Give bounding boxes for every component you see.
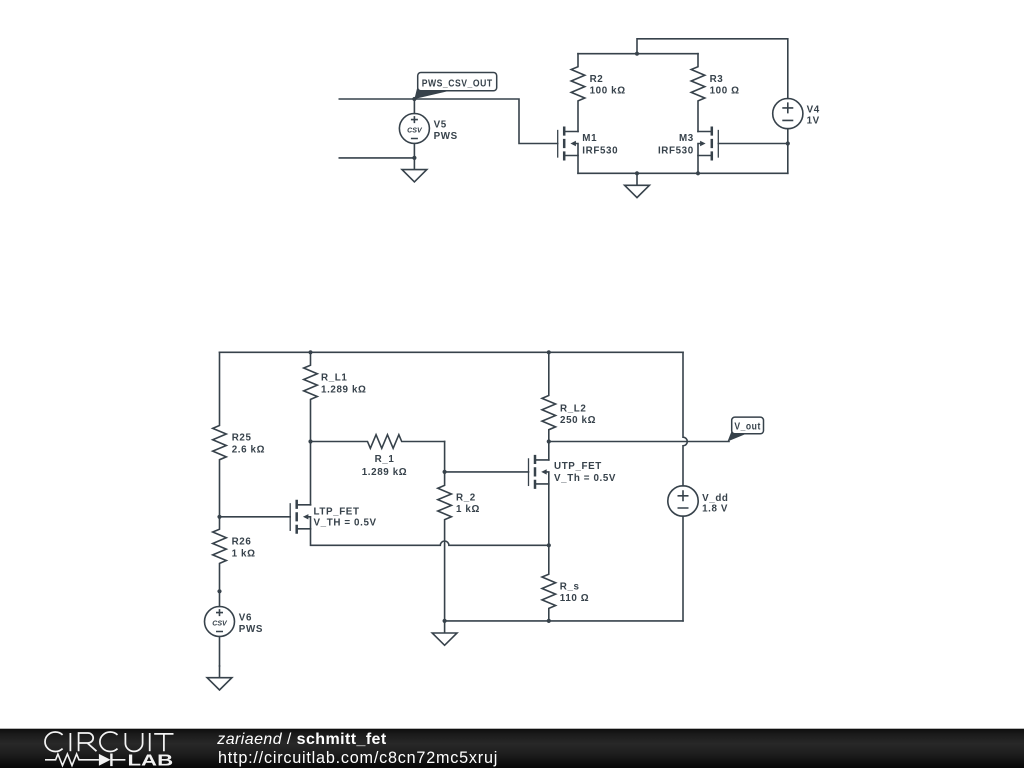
node R_L2 / UTP drain / V_out junction: [547, 439, 551, 443]
svg-text:R_2: R_2: [456, 493, 476, 504]
voltage source V5 (CSV/PWS): [399, 99, 457, 158]
node V5 negative junction: [412, 156, 416, 160]
transistor LTP_FET: [290, 500, 310, 534]
node M3 gate / V4 junction: [786, 141, 790, 145]
svg-text:IRF530: IRF530: [582, 145, 618, 156]
wire V_out net: [549, 441, 729, 443]
wire UTP_FET gate: [445, 471, 529, 473]
ground (V5): [402, 158, 427, 182]
svg-text:PWS_CSV_OUT: PWS_CSV_OUT: [422, 78, 493, 89]
svg-text:100 Ω: 100 Ω: [710, 86, 740, 97]
svg-text:1 kΩ: 1 kΩ: [456, 504, 480, 515]
resistor R_L2: [542, 352, 596, 441]
svg-text:R2: R2: [590, 74, 604, 85]
wire UTP_FET source: [548, 484, 550, 545]
node top rail junction: [635, 52, 639, 56]
node bottom rail / R_s junction: [547, 619, 551, 623]
svg-text:R25: R25: [232, 433, 252, 444]
svg-text:CSV: CSV: [407, 126, 423, 134]
voltage source V6 (CSV/PWS): [205, 591, 263, 666]
wire M3 source to rail: [697, 156, 699, 174]
node R_L1 / R_1 / LTP drain junction: [308, 439, 312, 443]
transistor M3 IRF530: [698, 127, 718, 161]
node PWS_CSV_OUT: [412, 97, 416, 101]
node LTP_FET gate tap (R25/R26): [217, 515, 221, 519]
node R26 / V6 junction: [217, 589, 221, 593]
resistor R_s: [542, 545, 589, 621]
node ground rail junction (M1 side): [635, 171, 639, 175]
wire V4 negative branch: [787, 129, 789, 174]
wire M1 source to rail: [577, 156, 579, 174]
svg-text:R_1: R_1: [375, 454, 395, 465]
svg-text:zariaend / schmitt_fet: zariaend / schmitt_fet: [216, 731, 387, 748]
svg-text:M1: M1: [582, 133, 597, 144]
svg-text:V_dd: V_dd: [702, 493, 728, 504]
node bottom rail / ground junction: [443, 619, 447, 623]
wire bottom rail (lower circuit): [445, 620, 683, 622]
svg-text:V_TH = 0.5V: V_TH = 0.5V: [314, 518, 377, 529]
svg-text:1.289 kΩ: 1.289 kΩ: [362, 467, 408, 478]
node top rail / R_L2 junction: [547, 350, 551, 354]
svg-text:PWS: PWS: [434, 131, 458, 142]
voltage source V4 1V: [773, 99, 820, 129]
node ground rail junction (M3 side): [696, 171, 700, 175]
wire LTP_FET drain: [310, 442, 312, 505]
svg-text:V5: V5: [434, 120, 447, 131]
svg-text:LTP_FET: LTP_FET: [314, 507, 360, 518]
svg-text:M3: M3: [679, 133, 694, 144]
svg-text:V6: V6: [239, 613, 252, 624]
wire R_1 to R_2 node: [444, 442, 446, 472]
wire UTP_FET drain: [548, 442, 550, 460]
transistor M1 IRF530: [558, 127, 578, 161]
svg-text:1.289 kΩ: 1.289 kΩ: [321, 384, 367, 395]
wire V_dd positive branch (hops V_out): [683, 352, 687, 486]
svg-text:250 kΩ: 250 kΩ: [560, 415, 596, 426]
svg-text:UTP_FET: UTP_FET: [554, 461, 602, 472]
wire bottom rail (sources to ground): [578, 172, 788, 174]
ground (lower circuit): [432, 621, 457, 645]
svg-text:CSV: CSV: [212, 619, 228, 627]
voltage source V_dd 1.8V: [668, 486, 729, 516]
resistor R_L1: [304, 352, 367, 441]
svg-text:2.6 kΩ: 2.6 kΩ: [232, 444, 265, 455]
svg-text:V_Th = 0.5V: V_Th = 0.5V: [554, 473, 616, 484]
svg-text:1V: 1V: [807, 115, 820, 126]
resistor R25: [213, 352, 265, 517]
node top rail / R_L1 junction: [308, 350, 312, 354]
svg-text:V4: V4: [807, 104, 820, 115]
transistor UTP_FET: [529, 455, 549, 489]
node R_1 / R_2 / UTP gate junction: [443, 470, 447, 474]
wire M3 gate to V4: [718, 143, 788, 145]
CircuitLab logo: [45, 732, 174, 768]
wire PWS_CSV_OUT net: [339, 99, 557, 144]
wire V_dd negative branch: [682, 516, 684, 621]
ground (V6): [207, 666, 232, 690]
svg-text:1 kΩ: 1 kΩ: [232, 548, 256, 559]
svg-text:110 Ω: 110 Ω: [560, 593, 589, 604]
resistor R3: [691, 54, 739, 132]
wire LTP_FET source rail (hops R_2): [311, 529, 549, 546]
resistor R_2: [438, 472, 480, 621]
flag V_out: [728, 417, 764, 441]
wire rail R2-R3: [578, 53, 698, 55]
svg-text:LAB: LAB: [128, 752, 174, 768]
svg-text:1.8 V: 1.8 V: [702, 503, 728, 514]
svg-text:R3: R3: [710, 74, 724, 85]
node source rail / R_s junction: [547, 543, 551, 547]
resistor R2: [571, 54, 625, 132]
wire V5 negative net: [339, 157, 414, 159]
svg-text:R_s: R_s: [560, 581, 580, 592]
svg-text:http://circuitlab.com/c8cn72mc: http://circuitlab.com/c8cn72mc5xruj: [218, 749, 498, 767]
wire top rail (lower circuit): [220, 351, 684, 353]
resistor R_1: [311, 435, 445, 478]
svg-text:IRF530: IRF530: [658, 145, 694, 156]
ground (top circuit): [625, 173, 650, 197]
svg-text:100 kΩ: 100 kΩ: [590, 86, 626, 97]
svg-text:R_L1: R_L1: [321, 373, 347, 384]
resistor R26: [213, 517, 256, 592]
svg-text:V_out: V_out: [734, 422, 761, 433]
svg-text:R_L2: R_L2: [560, 404, 586, 415]
wire top rail (R2/R3 top to V4+): [637, 39, 788, 99]
svg-text:PWS: PWS: [239, 624, 263, 635]
wire LTP_FET gate: [220, 516, 291, 518]
flag PWS_CSV_OUT: [414, 73, 496, 100]
svg-text:R26: R26: [232, 537, 252, 548]
